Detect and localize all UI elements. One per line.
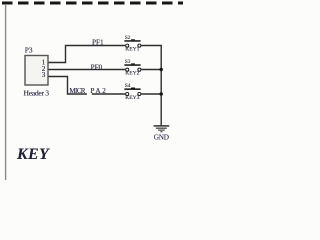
svg-text:KEY: KEY [16,146,50,163]
ground symbol [154,125,170,132]
switch S4 (KEY3) [124,83,141,101]
sheet border top (dashed) [2,2,183,5]
wire pin1 to S2 (net PF1) [49,46,126,63]
svg-text:KEY3: KEY3 [125,95,139,101]
svg-text:S2: S2 [125,35,131,41]
svg-text:GND: GND [154,133,169,141]
switch S3 (KEY2) [124,59,141,77]
wire pin2 to S3 (net PF0) [49,69,126,71]
connector P3 body [25,56,48,86]
svg-text:KEY1: KEY1 [125,47,139,53]
wire S2 right to ground bus [141,46,161,126]
switch S2 (KEY1) [124,35,141,53]
svg-text:Header 3: Header 3 [24,88,50,97]
wire S3 right to bus [141,69,161,71]
wire pin3 to S4 (net MICR PA2) [49,77,126,95]
svg-text:PF0: PF0 [91,63,103,71]
svg-text:S3: S3 [125,59,131,65]
wire S4 right to bus [141,93,161,95]
junction dot at S4/bus [160,92,163,95]
svg-text:3: 3 [42,71,46,79]
svg-text:KEY2: KEY2 [125,71,139,77]
svg-text:PA2: PA2 [91,87,107,95]
svg-text:MICR: MICR [69,87,85,95]
sheet border left [5,4,7,180]
svg-text:P3: P3 [25,45,33,54]
svg-text:PF1: PF1 [92,39,104,47]
junction dot at S3/bus [160,68,163,71]
svg-text:S4: S4 [125,83,131,89]
